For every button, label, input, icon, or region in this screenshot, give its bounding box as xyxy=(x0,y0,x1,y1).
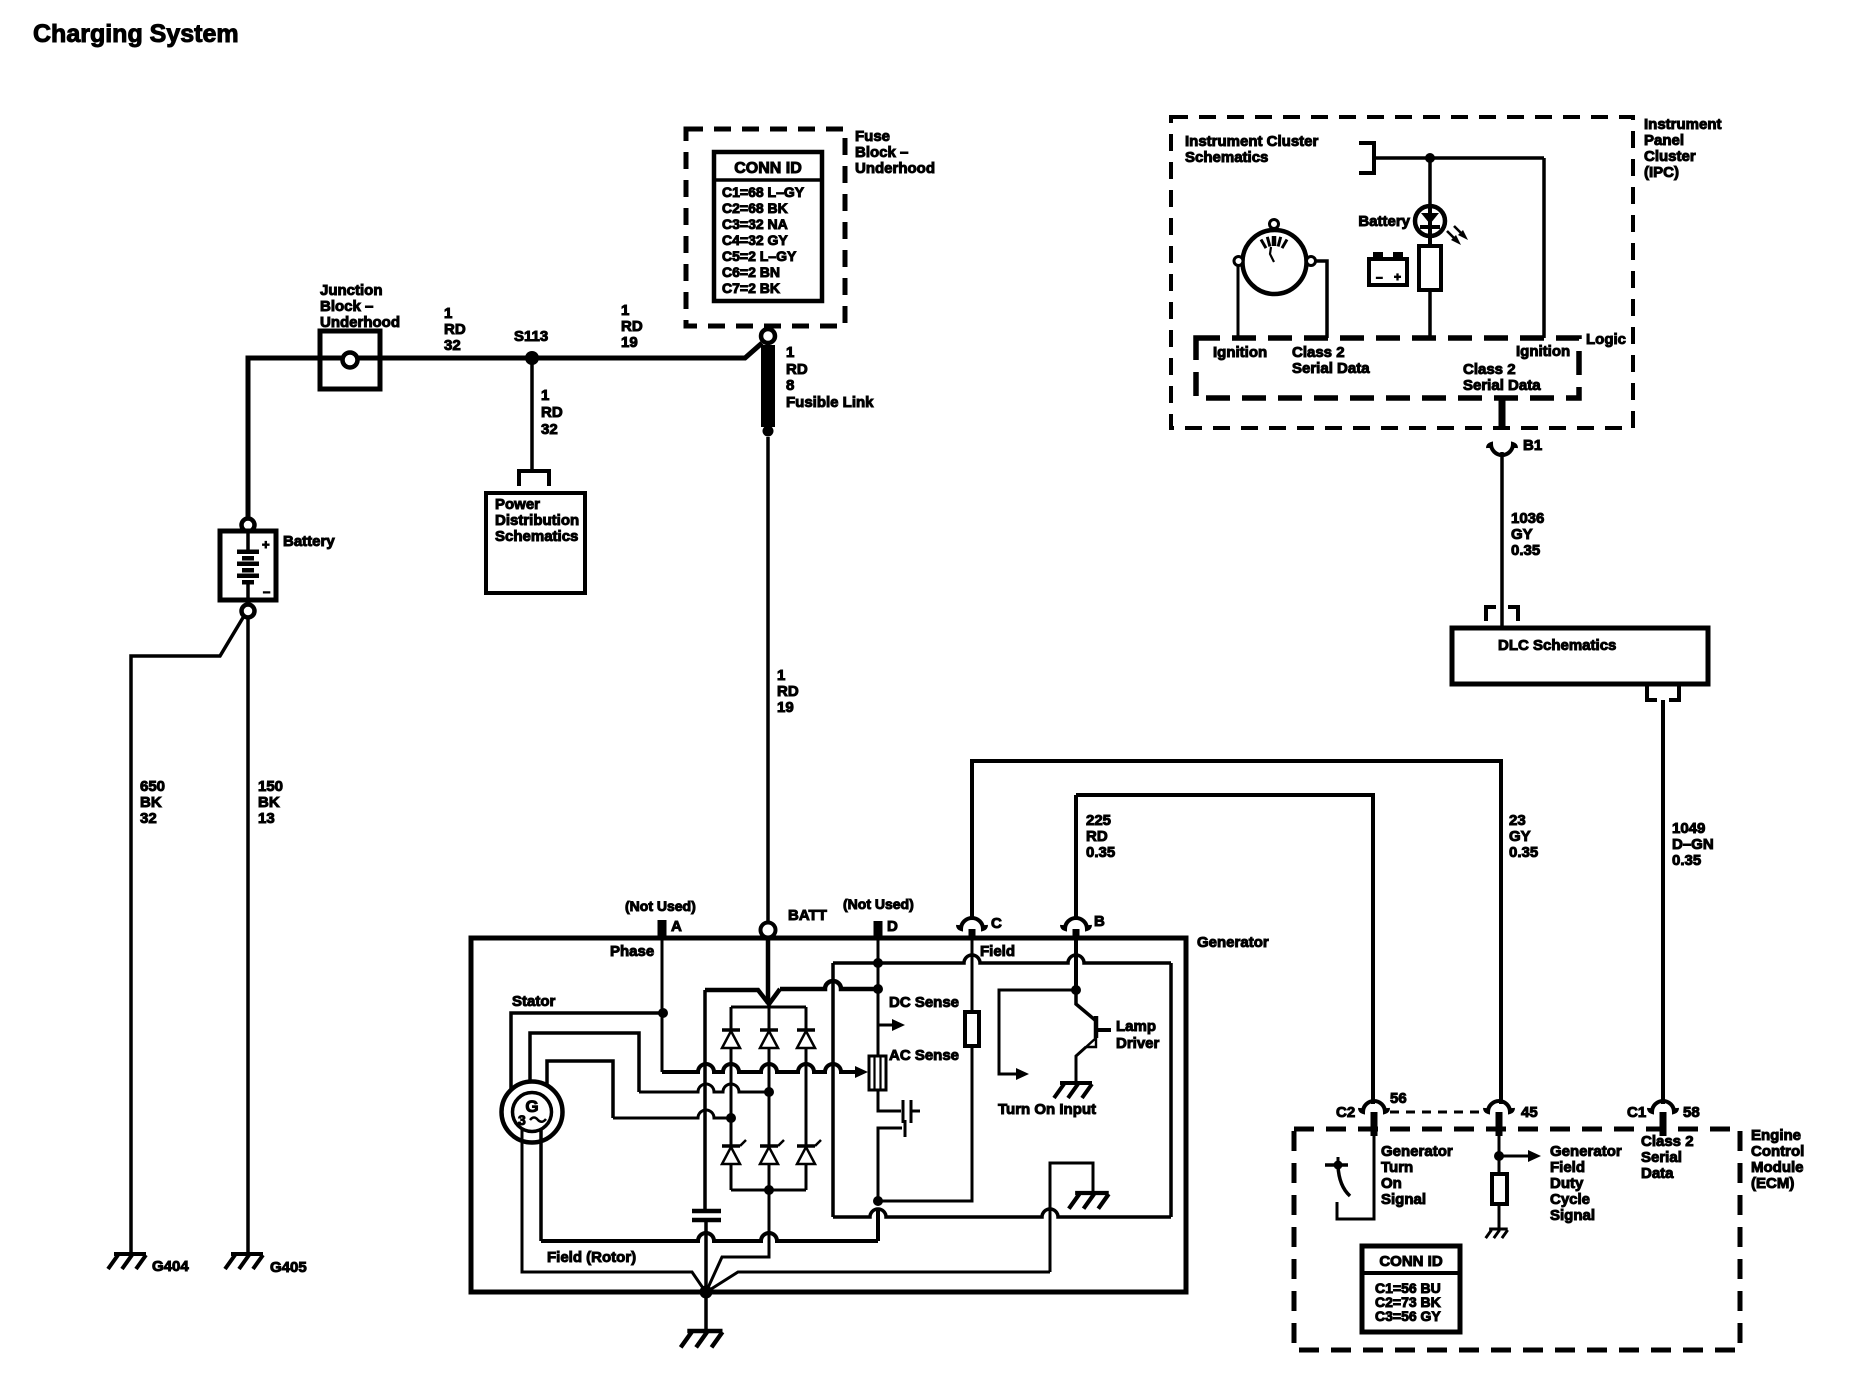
instrument panel cluster dashed box xyxy=(1171,117,1633,428)
label (Not Used) D xyxy=(843,896,914,935)
svg-text:RD: RD xyxy=(777,683,799,700)
svg-text:C6=2 BN: C6=2 BN xyxy=(722,264,780,280)
svg-text:Class 2: Class 2 xyxy=(1463,361,1516,378)
node S113 junction dot xyxy=(514,328,548,365)
connector B1 xyxy=(1488,398,1542,455)
svg-text:RD: RD xyxy=(1086,828,1108,845)
svg-text:GY: GY xyxy=(1511,526,1533,543)
svg-text:1: 1 xyxy=(621,302,629,319)
diode D6 (bottom right) xyxy=(797,1140,821,1190)
wire label 225 RD 0.35 xyxy=(1086,812,1115,861)
svg-text:Class 2: Class 2 xyxy=(1641,1133,1694,1150)
wire label 650 BK 32 xyxy=(140,778,165,827)
ground G404 xyxy=(108,1254,189,1275)
svg-text:Lamp: Lamp xyxy=(1116,1018,1156,1035)
AC sense fuse element xyxy=(869,1056,886,1090)
regulator internal ground xyxy=(1069,1193,1109,1209)
svg-text:Class 2: Class 2 xyxy=(1292,344,1345,361)
label Class 2 Serial Data (ECM) xyxy=(1641,1133,1694,1182)
svg-text:C1: C1 xyxy=(1627,1104,1646,1121)
svg-text:Driver: Driver xyxy=(1116,1035,1160,1052)
svg-text:C2: C2 xyxy=(1336,1104,1355,1121)
svg-text:Instrument Cluster: Instrument Cluster xyxy=(1185,133,1319,150)
label Instrument Panel Cluster (IPC) xyxy=(1644,116,1722,181)
svg-text:RD: RD xyxy=(444,321,466,338)
ground G405 xyxy=(225,1254,307,1276)
wire S113 to power distribution xyxy=(530,358,534,471)
stator winding 2 wire xyxy=(530,1033,769,1092)
svg-text:Power: Power xyxy=(495,496,540,513)
terminal C connector xyxy=(958,795,1002,938)
svg-text:CONN ID: CONN ID xyxy=(734,160,802,177)
wire IPC right ignition drop xyxy=(1542,158,1546,338)
ECM CONN ID table xyxy=(1362,1246,1460,1332)
svg-text:150: 150 xyxy=(258,778,283,795)
svg-text:On: On xyxy=(1381,1175,1402,1192)
generator case ground xyxy=(681,1331,723,1347)
wire label 23 GY 0.35 xyxy=(1509,812,1538,861)
dashed wire C2 to 45 xyxy=(1390,1111,1484,1114)
svg-text:C7=2 BK: C7=2 BK xyxy=(722,280,780,296)
connector bracket DLC bottom xyxy=(1647,684,1679,700)
diode D1 (top left) xyxy=(722,1007,740,1146)
svg-text:Logic: Logic xyxy=(1586,331,1626,348)
svg-text:Ignition: Ignition xyxy=(1516,343,1570,360)
svg-text:(Not Used): (Not Used) xyxy=(843,896,914,912)
connector stub IPC battery feed xyxy=(1359,143,1374,173)
label Class 2 Serial Data (B1) xyxy=(1463,361,1541,394)
power distribution schematics box xyxy=(486,493,585,593)
diode D3 (top right) xyxy=(797,1007,815,1146)
wire field output xyxy=(878,1046,972,1201)
generator turn on switch xyxy=(1325,1136,1374,1219)
svg-text:Battery: Battery xyxy=(283,533,335,550)
svg-text:D: D xyxy=(887,918,898,935)
svg-text:DLC Schematics: DLC Schematics xyxy=(1498,637,1616,654)
svg-text:Turn: Turn xyxy=(1381,1159,1413,1176)
wire battery to junction block to S113 (1 RD 32 / 1 RD 19) xyxy=(248,343,762,519)
junction block - underhood box xyxy=(320,331,380,389)
label Generator Turn On Signal xyxy=(1381,1143,1453,1208)
svg-text:19: 19 xyxy=(621,334,638,351)
regulator box xyxy=(833,955,1171,1217)
wire B terminal to ECM C2 (225 RD) xyxy=(1076,795,1373,1104)
rotor field lead right xyxy=(539,1129,543,1241)
fuse block CONN ID table xyxy=(714,152,822,301)
svg-text:Serial Data: Serial Data xyxy=(1463,377,1541,394)
rotor field lead left xyxy=(522,1129,705,1291)
turn on input arrow xyxy=(999,990,1076,1080)
wire label 1 RD 19 xyxy=(621,302,643,351)
svg-text:Duty: Duty xyxy=(1550,1175,1584,1192)
terminal A stub xyxy=(658,920,667,1013)
connector C1 58 xyxy=(1627,1101,1700,1136)
stator winding 1 wire xyxy=(511,1013,663,1090)
lamp driver ground xyxy=(1054,1083,1092,1098)
svg-text:Instrument: Instrument xyxy=(1644,116,1722,133)
svg-text:G405: G405 xyxy=(270,1259,307,1276)
battery icon xyxy=(1369,252,1407,285)
wire label 1 RD 32 (drop) xyxy=(541,387,563,438)
svg-text:Junction: Junction xyxy=(320,282,383,299)
wire feed to battery LED xyxy=(1428,158,1432,207)
svg-text:56: 56 xyxy=(1390,1090,1407,1107)
wire D sense line xyxy=(877,963,880,1056)
terminal D stub xyxy=(874,921,883,963)
label DC Sense xyxy=(889,994,959,1011)
connector C2 56 xyxy=(1336,1090,1407,1136)
svg-text:Ignition: Ignition xyxy=(1213,344,1267,361)
battery negative terminal circle xyxy=(242,605,255,618)
svg-text:1: 1 xyxy=(444,305,452,322)
svg-text:225: 225 xyxy=(1086,812,1111,829)
regulator mosfet xyxy=(878,1090,920,1201)
svg-text:Generator: Generator xyxy=(1550,1143,1622,1160)
svg-text:BK: BK xyxy=(140,794,162,811)
wire to generator ground xyxy=(704,1292,708,1331)
svg-text:GY: GY xyxy=(1509,828,1531,845)
wire phase A / AC sense xyxy=(662,938,868,1078)
svg-text:Underhood: Underhood xyxy=(855,160,935,177)
svg-text:0.35: 0.35 xyxy=(1509,844,1538,861)
capacitor xyxy=(692,1211,721,1292)
label (Not Used) A xyxy=(625,898,696,935)
svg-text:Generator: Generator xyxy=(1197,934,1269,951)
wire rectifier return xyxy=(707,1190,769,1290)
svg-text:Signal: Signal xyxy=(1381,1191,1426,1208)
svg-text:C2=68 BK: C2=68 BK xyxy=(722,200,788,216)
wire label 1049 D-GN 0.35 xyxy=(1672,820,1714,869)
field rotor bus xyxy=(541,1209,878,1241)
svg-text:D–GN: D–GN xyxy=(1672,836,1714,853)
wire battery negative diagonal to 650 BK xyxy=(131,616,244,1254)
svg-text:Fusible Link: Fusible Link xyxy=(786,394,874,411)
svg-text:A: A xyxy=(671,918,682,935)
engine control module dashed box xyxy=(1294,1129,1740,1350)
label Ignition (right) xyxy=(1516,343,1570,360)
terminal BATT xyxy=(761,907,827,1004)
gauge voltmeter xyxy=(1234,220,1316,295)
svg-text:Control: Control xyxy=(1751,1143,1804,1160)
wire regulator return xyxy=(708,1272,1050,1291)
svg-text:650: 650 xyxy=(140,778,165,795)
diode D2 (top mid) xyxy=(760,1004,778,1146)
svg-text:C4=32 GY: C4=32 GY xyxy=(722,232,788,248)
svg-text:Block –: Block – xyxy=(855,144,908,161)
svg-text:8: 8 xyxy=(786,377,794,394)
label Instrument Cluster Schematics xyxy=(1185,133,1319,166)
svg-text:Data: Data xyxy=(1641,1165,1674,1182)
svg-text:32: 32 xyxy=(541,421,558,438)
svg-text:(IPC): (IPC) xyxy=(1644,164,1679,181)
svg-text:Field: Field xyxy=(1550,1159,1585,1176)
svg-text:Signal: Signal xyxy=(1550,1207,1595,1224)
label Logic xyxy=(1586,331,1626,348)
LED arrows xyxy=(1447,226,1468,245)
wire label 1036 GY 0.35 xyxy=(1511,510,1544,559)
label Battery (telltale) xyxy=(1358,213,1410,230)
svg-text:13: 13 xyxy=(258,810,275,827)
fusible link xyxy=(761,329,775,437)
label Lamp Driver xyxy=(1116,1018,1160,1052)
svg-text:B: B xyxy=(1094,913,1105,930)
svg-text:0.35: 0.35 xyxy=(1086,844,1115,861)
lamp driver transistor xyxy=(1076,938,1111,1083)
wire label 150 BK 13 xyxy=(258,778,283,827)
junction dot generator ground xyxy=(700,1286,713,1299)
svg-text:1049: 1049 xyxy=(1672,820,1705,837)
wire C terminal to ECM 45 (23 GY) xyxy=(972,761,1501,1104)
svg-text:Distribution: Distribution xyxy=(495,512,579,529)
connector bracket power distribution xyxy=(519,471,549,486)
field duty cycle node xyxy=(1494,1136,1541,1174)
label Turn On Input xyxy=(998,1101,1096,1118)
wire fusible link to BATT terminal xyxy=(766,437,770,923)
svg-text:C1=68 L–GY: C1=68 L–GY xyxy=(722,184,805,200)
svg-text:G404: G404 xyxy=(152,1258,189,1275)
label Battery xyxy=(283,533,335,550)
field resistor xyxy=(965,938,979,1046)
svg-text:RD: RD xyxy=(541,404,563,421)
wire battery negative to G405 xyxy=(246,617,250,1254)
svg-text:–: – xyxy=(1376,270,1383,284)
svg-text:Serial: Serial xyxy=(1641,1149,1682,1166)
svg-text:0.35: 0.35 xyxy=(1672,852,1701,869)
svg-text:CONN ID: CONN ID xyxy=(1379,1253,1443,1270)
junction dot lamp driver xyxy=(1071,985,1081,995)
svg-text:Serial Data: Serial Data xyxy=(1292,360,1370,377)
junction dot DC sense bus xyxy=(873,984,883,994)
battery xyxy=(220,531,276,606)
svg-text:Fuse: Fuse xyxy=(855,128,890,145)
label Phase xyxy=(610,943,654,960)
junction dot D to regulator xyxy=(873,958,883,968)
DC sense arrow xyxy=(878,1019,905,1031)
ECM pulldown resistor xyxy=(1492,1174,1507,1228)
svg-text:3: 3 xyxy=(518,1112,526,1128)
connector bracket DLC top xyxy=(1486,607,1518,621)
junction dot rectifier bottom xyxy=(764,1185,774,1195)
svg-text:Field (Rotor): Field (Rotor) xyxy=(547,1249,636,1266)
svg-text:C3=56 GY: C3=56 GY xyxy=(1375,1308,1441,1324)
svg-text:Cycle: Cycle xyxy=(1550,1191,1590,1208)
junction dot phase 3 xyxy=(726,1113,736,1123)
svg-text:0.35: 0.35 xyxy=(1511,542,1540,559)
logic dashed box xyxy=(1196,338,1579,398)
diode D5 (bottom mid) xyxy=(760,1140,784,1190)
terminal B connector xyxy=(1062,795,1105,938)
stator winding 3 wire xyxy=(547,1061,731,1118)
svg-text:Underhood: Underhood xyxy=(320,314,400,331)
capacitor line xyxy=(703,990,707,1209)
svg-text:19: 19 xyxy=(777,699,794,716)
svg-text:1: 1 xyxy=(541,387,549,404)
svg-text:1: 1 xyxy=(777,667,785,684)
junction dot phase 2 xyxy=(764,1087,774,1097)
svg-text:1036: 1036 xyxy=(1511,510,1544,527)
wire gauge right to logic xyxy=(1315,261,1327,338)
svg-text:Block –: Block – xyxy=(320,298,373,315)
svg-text:B1: B1 xyxy=(1523,437,1542,454)
wire label 1 RD 19 (to BATT) xyxy=(777,667,799,716)
label Class 2 Serial Data (left) xyxy=(1292,344,1370,377)
svg-text:32: 32 xyxy=(444,337,461,354)
wire B1 to DLC (1036 GY) xyxy=(1500,452,1504,628)
svg-text:Turn On Input: Turn On Input xyxy=(998,1101,1096,1118)
svg-text:23: 23 xyxy=(1509,812,1526,829)
svg-text:58: 58 xyxy=(1683,1104,1700,1121)
rectifier bottom bus xyxy=(731,1189,806,1192)
svg-text:RD: RD xyxy=(621,318,643,335)
svg-text:Cluster: Cluster xyxy=(1644,148,1696,165)
generator box xyxy=(471,938,1186,1292)
svg-text:AC Sense: AC Sense xyxy=(889,1047,959,1064)
svg-text:Schematics: Schematics xyxy=(495,528,578,545)
svg-text:C5=2 L–GY: C5=2 L–GY xyxy=(722,248,797,264)
svg-text:S113: S113 xyxy=(514,328,548,345)
svg-text:32: 32 xyxy=(140,810,157,827)
svg-text:Charging System: Charging System xyxy=(33,20,239,48)
svg-text:Phase: Phase xyxy=(610,943,654,960)
svg-text:Engine: Engine xyxy=(1751,1127,1801,1144)
svg-text:+: + xyxy=(1394,270,1401,284)
svg-text:DC Sense: DC Sense xyxy=(889,994,959,1011)
DLC schematics box xyxy=(1452,628,1708,684)
resistor IPC LED xyxy=(1419,246,1441,338)
svg-text:BATT: BATT xyxy=(788,907,827,924)
svg-text:(ECM): (ECM) xyxy=(1751,1175,1794,1192)
svg-text:BK: BK xyxy=(258,794,280,811)
rectifier top bus xyxy=(705,981,878,1007)
svg-text:1: 1 xyxy=(786,344,794,361)
label AC Sense xyxy=(889,1047,959,1064)
label Generator xyxy=(1197,934,1269,951)
title Charging System xyxy=(33,20,239,48)
connector 45 xyxy=(1485,1101,1538,1136)
fuse block - underhood dashed box xyxy=(686,129,845,326)
regulator internal ground loop xyxy=(1050,1163,1093,1272)
battery telltale LED xyxy=(1415,206,1445,246)
wire IPC feed horizontal xyxy=(1374,156,1544,160)
svg-text:RD: RD xyxy=(786,361,808,378)
label Junction Block - Underhood xyxy=(320,282,400,331)
ECM internal ground xyxy=(1486,1229,1508,1238)
svg-text:Battery: Battery xyxy=(1358,213,1410,230)
diode D4 (bottom left) xyxy=(722,1140,746,1190)
label Generator Field Duty Cycle Signal xyxy=(1550,1143,1622,1224)
svg-text:C: C xyxy=(991,915,1002,932)
svg-text:Field: Field xyxy=(980,943,1015,960)
svg-text:G: G xyxy=(525,1097,538,1116)
wire label 1 RD 32 xyxy=(444,305,466,354)
svg-text:Module: Module xyxy=(1751,1159,1804,1176)
junction dot phase A xyxy=(658,1008,668,1018)
svg-text:Schematics: Schematics xyxy=(1185,149,1268,166)
wire DLC to ECM C1 (1049 D-GN) xyxy=(1661,700,1665,1104)
svg-text:Generator: Generator xyxy=(1381,1143,1453,1160)
svg-text:Panel: Panel xyxy=(1644,132,1684,149)
svg-text:(Not Used): (Not Used) xyxy=(625,898,696,914)
svg-text:Stator: Stator xyxy=(512,993,556,1010)
battery B+ terminal circle xyxy=(242,519,255,532)
junction dot regulator gate xyxy=(873,1196,883,1206)
junction dot IPC feed xyxy=(1425,153,1435,163)
label Field (Rotor) xyxy=(547,1249,636,1266)
generator G symbol xyxy=(502,1082,563,1143)
label Field xyxy=(980,943,1015,960)
svg-text:C3=32 NA: C3=32 NA xyxy=(722,216,788,232)
svg-text:45: 45 xyxy=(1521,1104,1538,1121)
label Stator xyxy=(512,993,556,1010)
label 1 RD 8 Fusible Link xyxy=(786,344,874,411)
label Engine Control Module (ECM) xyxy=(1751,1127,1804,1192)
label Ignition (left) xyxy=(1213,344,1267,361)
label Fuse Block - Underhood xyxy=(855,128,935,177)
wire gauge left to logic xyxy=(1237,266,1240,338)
svg-text:+: + xyxy=(262,537,270,552)
svg-text:–: – xyxy=(263,584,270,599)
